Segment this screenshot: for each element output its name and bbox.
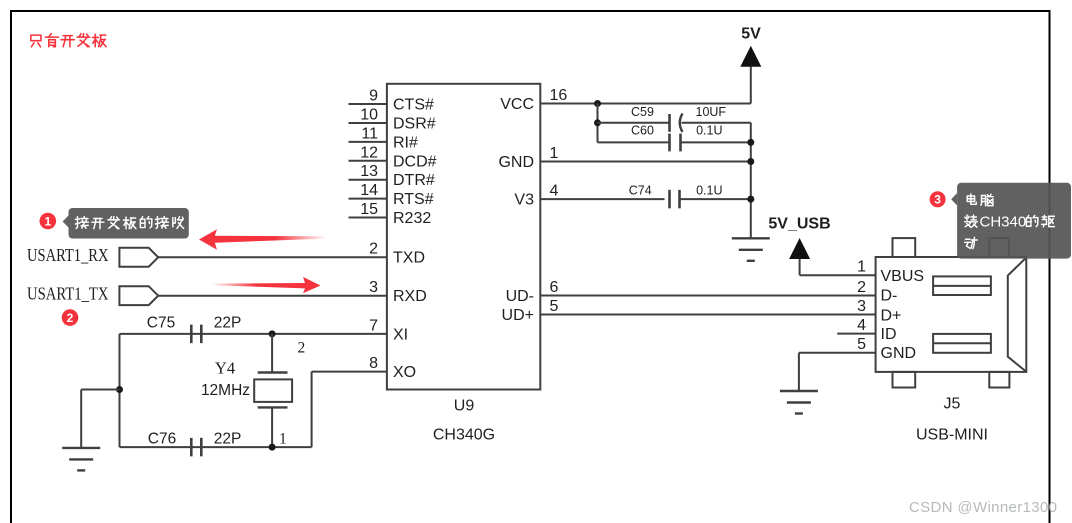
svg-text:5V_USB: 5V_USB	[768, 216, 830, 233]
svg-text:USART1_TX: USART1_TX	[27, 284, 109, 304]
svg-text:5: 5	[550, 298, 559, 315]
svg-text:14: 14	[360, 182, 378, 199]
svg-text:XI: XI	[393, 326, 408, 343]
svg-text:VBUS: VBUS	[881, 268, 925, 285]
svg-text:10UF: 10UF	[696, 105, 727, 119]
svg-text:11: 11	[361, 125, 378, 142]
svg-text:C75: C75	[147, 314, 175, 331]
svg-text:16: 16	[550, 87, 568, 104]
svg-text:3: 3	[857, 298, 866, 315]
svg-text:15: 15	[360, 201, 378, 218]
svg-text:2: 2	[369, 241, 378, 258]
svg-text:J5: J5	[944, 396, 961, 413]
svg-text:4: 4	[550, 183, 559, 200]
svg-text:UD+: UD+	[502, 307, 534, 324]
svg-text:22P: 22P	[214, 314, 242, 331]
svg-text:DTR#: DTR#	[393, 172, 435, 189]
svg-text:7: 7	[369, 317, 378, 334]
svg-text:DSR#: DSR#	[393, 116, 436, 133]
svg-text:C76: C76	[148, 430, 176, 447]
svg-text:D-: D-	[881, 288, 898, 305]
svg-text:10: 10	[360, 107, 378, 124]
svg-text:1: 1	[550, 145, 559, 162]
svg-text:9: 9	[369, 88, 378, 105]
svg-text:C59: C59	[631, 105, 654, 119]
svg-text:Y4: Y4	[215, 359, 235, 378]
svg-text:8: 8	[369, 355, 378, 372]
svg-text:22P: 22P	[214, 430, 242, 447]
svg-text:CH340: CH340	[980, 214, 1027, 231]
svg-text:CTS#: CTS#	[393, 97, 434, 114]
svg-text:CH340G: CH340G	[433, 427, 495, 444]
svg-text:C74: C74	[629, 184, 652, 198]
svg-text:UD-: UD-	[506, 288, 534, 305]
svg-text:RI#: RI#	[393, 134, 418, 151]
svg-text:4: 4	[857, 317, 866, 334]
svg-text:RXD: RXD	[393, 288, 427, 305]
svg-text:VCC: VCC	[500, 96, 534, 113]
svg-text:GND: GND	[498, 154, 534, 171]
svg-text:1: 1	[279, 431, 287, 448]
svg-text:R232: R232	[393, 210, 431, 227]
svg-text:ID: ID	[881, 326, 897, 343]
svg-text:USB-MINI: USB-MINI	[916, 427, 988, 444]
svg-text:6: 6	[550, 279, 559, 296]
svg-text:USART1_RX: USART1_RX	[27, 245, 109, 265]
svg-text:V3: V3	[514, 192, 534, 209]
svg-text:2: 2	[298, 340, 306, 357]
svg-text:DCD#: DCD#	[393, 153, 437, 170]
svg-text:GND: GND	[881, 345, 917, 362]
svg-text:5V: 5V	[741, 26, 761, 43]
svg-text:0.1U: 0.1U	[696, 184, 722, 198]
svg-text:5: 5	[857, 336, 866, 353]
svg-text:0.1U: 0.1U	[696, 124, 722, 138]
svg-text:TXD: TXD	[393, 250, 425, 267]
svg-text:2: 2	[67, 311, 74, 325]
svg-text:U9: U9	[454, 398, 475, 415]
svg-text:12MHz: 12MHz	[201, 382, 250, 399]
svg-text:2: 2	[857, 279, 866, 296]
svg-text:XO: XO	[393, 364, 416, 381]
svg-text:13: 13	[360, 163, 378, 180]
svg-text:CSDN @Winner1300: CSDN @Winner1300	[909, 499, 1057, 516]
svg-text:12: 12	[360, 144, 378, 161]
svg-text:1: 1	[857, 259, 866, 276]
svg-text:3: 3	[369, 279, 378, 296]
svg-text:3: 3	[934, 193, 941, 207]
svg-text:C60: C60	[631, 124, 654, 138]
svg-text:1: 1	[44, 214, 51, 228]
svg-text:D+: D+	[881, 307, 902, 324]
svg-text:RTS#: RTS#	[393, 191, 434, 208]
